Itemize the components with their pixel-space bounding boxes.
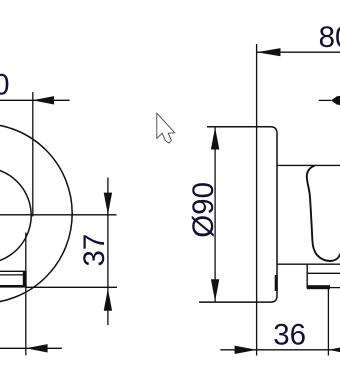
lever end cap dark band [23,272,27,288]
outer circle: escutcheon plate front view [0,124,72,304]
svg-text:80: 80 [319,21,340,54]
sleeve top line / right extension [277,164,340,166]
bottom-left dimension line [0,347,62,349]
svg-text:37: 37 [78,234,111,267]
extension line A (top-left dim, tangent of inner circle) [32,92,34,217]
right extension line (36 dim, x=328.4) [327,287,329,356]
80 dimension line [257,51,340,53]
diameter 90 top arrow (points up) [211,127,219,149]
36 dimension line [220,349,340,351]
bracket mid line [307,272,340,274]
lever bottom thick edge [0,285,27,288]
lever handle front view (cut off at left edge) [0,271,27,287]
svg-text:Ø90: Ø90 [187,182,220,238]
extension line B (bottom-left dim, lever end) [25,233,27,356]
inner circle: handle boss front view [0,168,31,264]
36 right arrow (points left, tip at x=328.4, clipped) [328,347,340,352]
thick mark on plate right edge [275,275,278,291]
37 bottom arrow (points up, tip at lower extension) [104,289,112,311]
36 left arrow (points right, tip at wall extension) [235,346,257,354]
wall / extension line (side view left face) [256,44,258,356]
svg-text:36: 36 [273,319,306,352]
bracket thick bottom bar [307,285,330,289]
centerline / top extension of 37 dim [0,214,117,216]
mouse cursor [157,113,175,143]
bottom-left dimension arrow (points left, tip at x=25.8) [26,344,48,352]
bracket thin bottom line to edge [330,287,340,289]
svg-text:50: 50 [0,69,10,102]
sleeve bottom line / right extension [277,263,340,265]
37 dimension line (vertical) [107,178,109,326]
37 bottom extension line [27,286,118,288]
handle knob side view outline [307,166,340,261]
top-left dimension arrow (points left, tip at x=32) [32,96,54,104]
diameter 90 bottom arrow (points down) [211,279,219,301]
cut-off dimension arrow at right edge [319,99,331,101]
diameter 90 dimension line [214,127,216,302]
escutcheon plate side view outline [199,127,277,302]
top-left dimension line [0,99,70,101]
80 left arrow (points left, tip at wall line) [257,48,281,56]
37 top arrow (points down, tip at centerline) [104,193,112,215]
lever bracket below sleeve (side view) [306,264,308,288]
